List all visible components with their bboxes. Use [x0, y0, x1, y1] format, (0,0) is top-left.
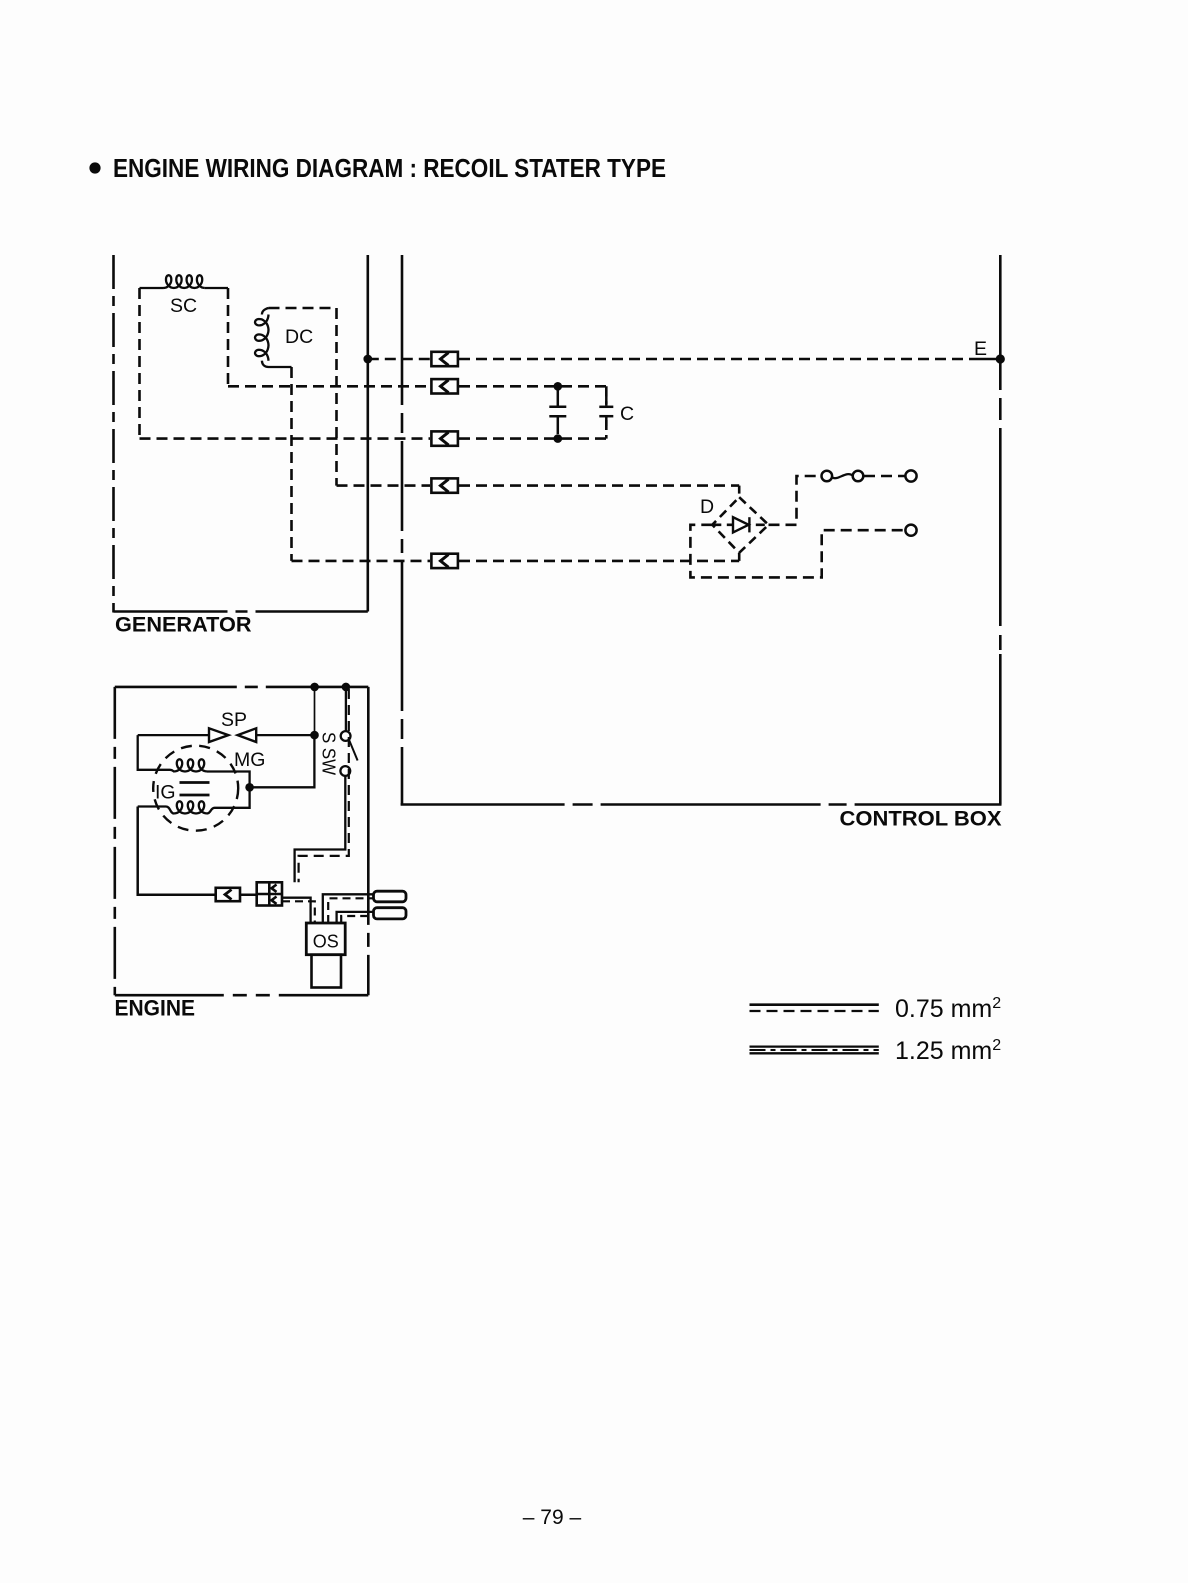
node dot engine top 2: [342, 683, 351, 692]
stop switch S SW wire from top: [345, 687, 347, 731]
wire OS to right connector 1 (dashed): [328, 898, 373, 923]
wire switch down and jog to connector: [295, 776, 346, 882]
right connector 2: [374, 908, 407, 919]
svg-text:1.25 mm2: 1.25 mm2: [895, 1037, 1001, 1065]
connector (engine double): [257, 882, 282, 905]
node dot capacitor bottom: [554, 434, 563, 443]
svg-text:GENERATOR: GENERATOR: [115, 613, 252, 637]
svg-text:E: E: [974, 338, 987, 360]
DC box top edge: [269, 307, 337, 310]
svg-text:MG: MG: [234, 749, 265, 771]
coil SC: [140, 275, 229, 288]
generator box left edge (dash-dot): [112, 255, 115, 613]
magneto MG dashed circle: [153, 746, 238, 831]
switch contact circle 2: [853, 471, 864, 482]
wire row4 corner into bridge top: [738, 486, 741, 498]
svg-text:0.75 mm2: 0.75 mm2: [895, 995, 1001, 1023]
node dot row1 at generator edge: [363, 355, 372, 364]
diode symbol: [733, 517, 749, 532]
node dot engine top 1: [310, 683, 319, 692]
right connector 1: [374, 891, 407, 902]
wire SP left: [138, 734, 209, 736]
wire OS to right connector 2 (solid): [337, 912, 374, 923]
wire row5: [292, 560, 431, 563]
DC box right edge down to row4: [335, 308, 338, 486]
node E dot: [996, 354, 1005, 363]
wire bridge right vertex to switch: [769, 476, 821, 525]
node dot SP: [310, 731, 319, 740]
switch circle lower: [340, 766, 350, 776]
connector (engine single): [216, 888, 240, 901]
wire dashed companion: [299, 689, 349, 882]
terminal circle upper: [905, 470, 916, 481]
wire row3: [140, 437, 431, 440]
switch blade: [349, 740, 358, 761]
diode bridge horizontal line: [712, 523, 768, 526]
generator box bottom edge: [114, 610, 368, 613]
diode bridge D diamond: [712, 497, 768, 553]
control box bottom edge: [401, 803, 1002, 806]
wire bridge left vertex loop to lower terminal: [690, 525, 904, 578]
legend 0.75 dashed line: [750, 1010, 879, 1012]
svg-text:OS: OS: [313, 932, 339, 952]
MG lower coil: [138, 787, 250, 813]
legend 1.25 dash-dot line: [750, 1049, 879, 1051]
spark plug gap SP: [209, 728, 256, 742]
wire double connector to OS (dashed): [282, 901, 315, 923]
coil DC: [255, 308, 292, 367]
wire OS to right connector 1 (solid): [323, 894, 374, 923]
switch contact circle 1: [822, 471, 833, 482]
wire row4: [337, 484, 431, 487]
wire DC bottom down to row5: [290, 367, 293, 561]
OS sensor body: [312, 955, 342, 988]
MG upper coil: [170, 759, 250, 787]
svg-text:S SW: S SW: [319, 732, 340, 775]
wire SP dot up to engine top: [314, 687, 316, 735]
svg-text:D: D: [700, 496, 714, 518]
generator box right edge (solid wire E): [366, 255, 369, 612]
svg-text:ENGINE: ENGINE: [115, 996, 196, 1021]
engine box border (dash-dot): [115, 687, 368, 995]
connector row2: [431, 379, 458, 393]
node dot IG junction: [245, 783, 254, 792]
wire to double connector: [240, 893, 257, 896]
wire OS to right connector 2 (dashed): [341, 916, 373, 923]
connector row1: [431, 352, 458, 366]
oil sensor OS box: [306, 923, 345, 955]
svg-text:C: C: [620, 403, 634, 425]
wire SC left down to row3: [138, 288, 141, 439]
svg-text:CONTROL BOX: CONTROL BOX: [840, 807, 1003, 831]
terminal circle lower: [905, 525, 916, 536]
svg-text:– 79 –: – 79 –: [523, 1506, 582, 1529]
svg-text:SC: SC: [170, 295, 197, 317]
capacitor C (right unit): [605, 386, 608, 404]
wire row2: [228, 385, 430, 388]
svg-text:DC: DC: [285, 326, 313, 348]
control box right edge: [999, 255, 1002, 805]
connector row3: [431, 431, 458, 445]
wire SC right down to row2: [227, 288, 230, 386]
legend 1.25 solid lines: [750, 1045, 879, 1047]
wire SP right: [256, 734, 314, 736]
svg-text:IG: IG: [155, 782, 176, 804]
IG core lines: [180, 781, 210, 784]
wire row5 stub to bridge bottom: [738, 553, 741, 561]
wire left down from SP: [138, 735, 170, 770]
wire IG junction to SP vertical: [250, 735, 315, 787]
switch circle upper: [341, 731, 351, 741]
wire switch to terminal: [864, 475, 905, 478]
connector row5: [431, 554, 458, 568]
switch blade: [832, 474, 852, 478]
svg-text:SP: SP: [221, 709, 247, 731]
control box left edge (dash-dot): [401, 255, 404, 805]
node dot capacitor top: [554, 382, 563, 391]
capacitor C (left unit): [549, 390, 566, 434]
title bullet: [89, 162, 100, 173]
svg-text:ENGINE WIRING DIAGRAM : RECOIL: ENGINE WIRING DIAGRAM : RECOIL STATER TY…: [113, 155, 666, 183]
connector row4: [431, 478, 458, 492]
wire row1: [368, 358, 430, 361]
wire double connector to OS (solid): [282, 898, 311, 923]
legend 0.75 solid line: [750, 1003, 879, 1006]
wire MG to connector: [138, 807, 216, 895]
